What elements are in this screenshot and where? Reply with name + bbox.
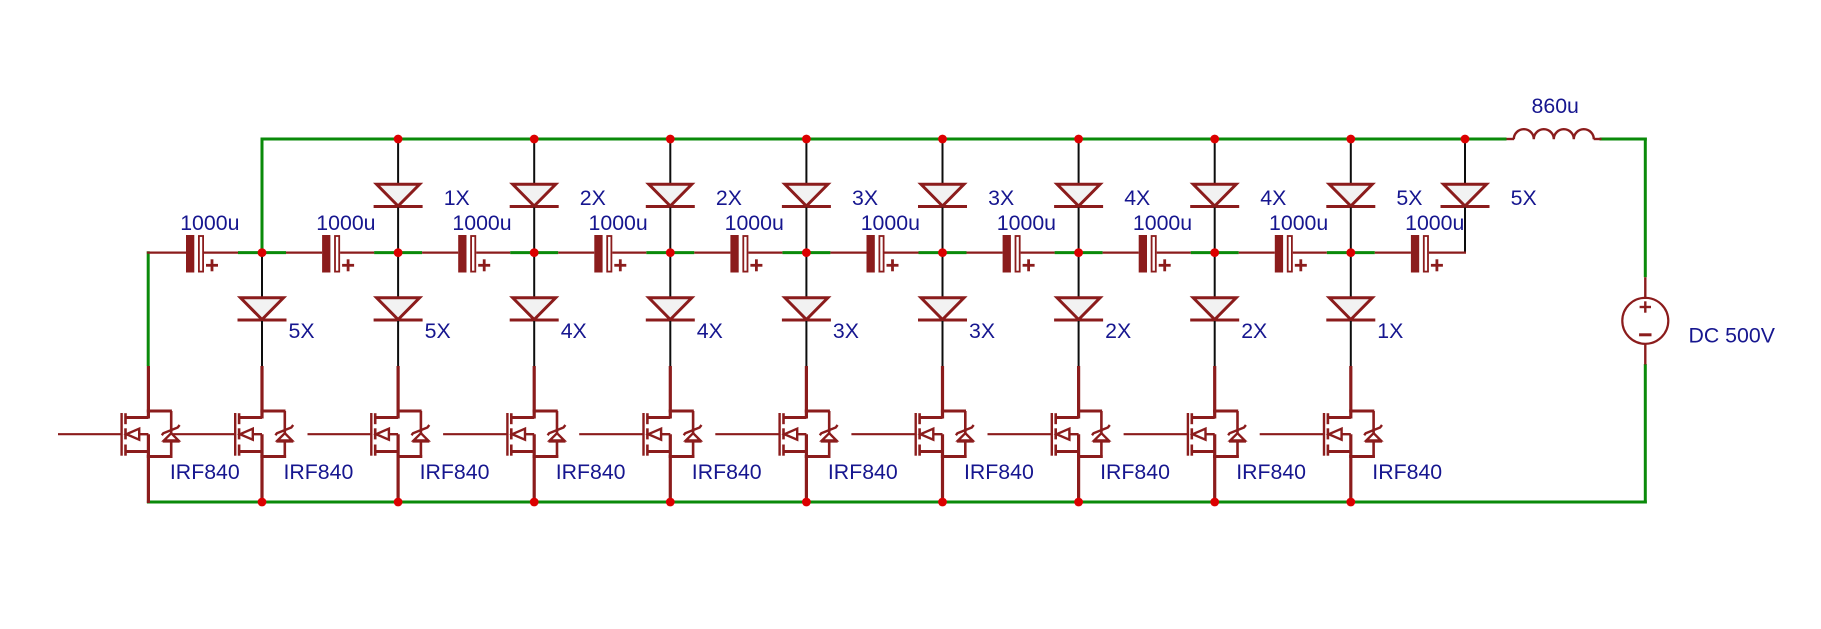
junction node on cap row (1210, 248, 1219, 257)
svg-text:1000u: 1000u (1405, 211, 1464, 235)
diode D3 (x2) top row (646, 184, 695, 206)
svg-text:3X: 3X (852, 186, 878, 210)
diode D11 (x5) bottom row (374, 298, 423, 320)
svg-text:DC 500V: DC 500V (1689, 324, 1776, 348)
wire: cap-row node stub at column 8 (1191, 251, 1239, 254)
wire: diode D17 cathode to MOSFET drain (1214, 321, 1216, 366)
wire: diode D16 cathode to MOSFET drain (1078, 321, 1080, 366)
capacitor C4 1000u (558, 235, 646, 273)
transistor Q7 IRF840 n-channel MOSFET (916, 366, 974, 503)
wire: Q7-Q8 gate link (988, 433, 1052, 435)
wire: top bus to diode D9 anode (1464, 139, 1466, 185)
inductor L1 860u (1507, 129, 1602, 139)
junction node on top bus (938, 135, 947, 144)
capacitor C10 1000u (1375, 235, 1466, 273)
svg-text:4X: 4X (697, 319, 723, 343)
wire: diode D11 cathode to MOSFET drain (397, 321, 399, 366)
wire: diode D2 cathode to cap row (533, 208, 535, 253)
wire: diode D1 cathode to cap row (397, 208, 399, 253)
svg-text:1X: 1X (1377, 319, 1403, 343)
diode D13 (x4) bottom row (646, 298, 695, 320)
wire: Q1-Q2 gate link (173, 433, 235, 435)
wire: cap row to diode D13 anode (669, 253, 671, 299)
wire: bottom ground bus (147, 501, 1647, 504)
svg-text:1000u: 1000u (861, 211, 920, 235)
wire: cap row to diode D11 anode (397, 253, 399, 299)
svg-text:IRF840: IRF840 (420, 460, 490, 484)
junction node on cap row (938, 248, 947, 257)
svg-text:IRF840: IRF840 (828, 460, 898, 484)
wire: cap-row node stub at column 4 (646, 251, 694, 254)
wire: Q1 gate input (58, 433, 121, 435)
svg-text:1000u: 1000u (316, 211, 375, 235)
wire: diode D13 cathode to MOSFET drain (669, 321, 671, 366)
svg-text:2X: 2X (1105, 319, 1131, 343)
wire: top bus left drop to cap row (261, 138, 264, 253)
svg-text:IRF840: IRF840 (170, 460, 240, 484)
svg-text:1000u: 1000u (725, 211, 784, 235)
wire: top bus to diode D6 anode (1078, 139, 1080, 185)
svg-text:1000u: 1000u (1133, 211, 1192, 235)
junction node on bottom bus (394, 498, 403, 507)
svg-text:4X: 4X (561, 319, 587, 343)
wire: diode D18 cathode to MOSFET drain (1350, 321, 1352, 366)
transistor Q10 IRF840 n-channel MOSFET (1324, 366, 1382, 503)
wire: cap row to diode D18 anode (1350, 253, 1352, 299)
svg-text:5X: 5X (1396, 186, 1422, 210)
wire: top supply bus (262, 138, 1507, 141)
wire: cap row to diode D10 anode (261, 253, 263, 299)
diode D14 (x3) bottom row (782, 298, 831, 320)
transistor Q9 IRF840 n-channel MOSFET (1188, 366, 1246, 503)
svg-text:IRF840: IRF840 (1236, 460, 1306, 484)
wire: top bus to diode D4 anode (805, 139, 807, 185)
diode D5 (x3) top row (918, 184, 967, 206)
wire: diode D9 cathode to cap row (1464, 208, 1466, 253)
junction node on cap row (802, 248, 811, 257)
wire: diode D10 cathode to MOSFET drain (261, 321, 263, 366)
diode D17 (x2) bottom row (1190, 298, 1239, 320)
svg-text:5X: 5X (1511, 186, 1537, 210)
junction node on top bus (1461, 135, 1470, 144)
junction node on top bus (1210, 135, 1219, 144)
wire: top bus to diode D3 anode (669, 139, 671, 185)
wire: right vertical from corner down to DC source + (1644, 138, 1647, 278)
wire: diode D6 cathode to cap row (1078, 208, 1080, 253)
wire: top bus to diode D5 anode (942, 139, 944, 185)
wire: Q3-Q4 gate link (443, 433, 507, 435)
transistor Q5 IRF840 n-channel MOSFET (644, 366, 702, 503)
svg-text:2X: 2X (1241, 319, 1267, 343)
wire: cap row to diode D16 anode (1078, 253, 1080, 299)
wire: diode D3 cathode to cap row (669, 208, 671, 253)
wire: cap-row node stub at column 6 (919, 251, 967, 254)
wire: diode D7 cathode to cap row (1214, 208, 1216, 253)
wire: cap-row node stub at column 1 (238, 251, 286, 254)
svg-text:1000u: 1000u (589, 211, 648, 235)
capacitor C9 1000u (1239, 235, 1327, 273)
wire: diode D15 cathode to MOSFET drain (942, 321, 944, 366)
svg-text:5X: 5X (289, 319, 315, 343)
svg-text:860u: 860u (1532, 94, 1579, 118)
svg-text:IRF840: IRF840 (1100, 460, 1170, 484)
wire: Q8-Q9 gate link (1124, 433, 1188, 435)
transistor Q6 IRF840 n-channel MOSFET (780, 366, 838, 503)
wire: top bus to diode D7 anode (1214, 139, 1216, 185)
svg-text:3X: 3X (988, 186, 1014, 210)
wire: cap-row node stub at column 7 (1055, 251, 1103, 254)
transistor Q2 IRF840 n-channel MOSFET (235, 366, 293, 503)
junction node on bottom bus (666, 498, 675, 507)
capacitor C5 1000u (694, 235, 782, 273)
wire: cap row to diode D15 anode (942, 253, 944, 299)
diode D10 (x5) bottom row (238, 298, 287, 320)
svg-text:1X: 1X (444, 186, 470, 210)
svg-text:3X: 3X (833, 319, 859, 343)
junction node on bottom bus (1346, 498, 1355, 507)
wire: left vertical cap1 to M1 drain (147, 251, 150, 366)
wire: cap-row node stub at column 5 (782, 251, 830, 254)
diode D9 (x5) top row (1441, 184, 1490, 206)
wire: cap-row node stub at column 2 (374, 251, 422, 254)
transistor Q3 IRF840 n-channel MOSFET (371, 366, 429, 503)
wire: Q4-Q5 gate link (579, 433, 643, 435)
wire: diode D12 cathode to MOSFET drain (533, 321, 535, 366)
svg-text:4X: 4X (1260, 186, 1286, 210)
svg-text:2X: 2X (716, 186, 742, 210)
junction node on bottom bus (938, 498, 947, 507)
junction node on bottom bus (258, 498, 267, 507)
diode D8 (x5) top row (1326, 184, 1375, 206)
svg-text:IRF840: IRF840 (692, 460, 762, 484)
svg-text:3X: 3X (969, 319, 995, 343)
junction node on cap row (258, 248, 267, 257)
junction node on cap row (394, 248, 403, 257)
diode D6 (x4) top row (1054, 184, 1103, 206)
wire: diode D8 cathode to cap row (1350, 208, 1352, 253)
junction node on top bus (1346, 135, 1355, 144)
junction node on cap row (666, 248, 675, 257)
wire: Q2-Q3 gate link (308, 433, 372, 435)
junction node on top bus (1074, 135, 1083, 144)
wire: cap-row node stub at column 9 (1327, 251, 1375, 254)
junction node on cap row (530, 248, 539, 257)
junction node on cap row (1074, 248, 1083, 257)
svg-text:1000u: 1000u (997, 211, 1056, 235)
wire: Q6-Q7 gate link (851, 433, 915, 435)
svg-text:1000u: 1000u (180, 211, 239, 235)
diode D16 (x2) bottom row (1054, 298, 1103, 320)
svg-text:2X: 2X (580, 186, 606, 210)
wire: diode D5 cathode to cap row (942, 208, 944, 253)
wire: cap row to diode D14 anode (805, 253, 807, 299)
junction node on bottom bus (1210, 498, 1219, 507)
svg-text:IRF840: IRF840 (1372, 460, 1442, 484)
junction node on top bus (666, 135, 675, 144)
wire: DC source - down to bottom bus (1644, 364, 1647, 504)
svg-text:1000u: 1000u (452, 211, 511, 235)
capacitor C8 1000u (1103, 235, 1191, 273)
svg-text:IRF840: IRF840 (556, 460, 626, 484)
transistor Q1 IRF840 n-channel MOSFET (122, 366, 180, 503)
svg-text:IRF840: IRF840 (284, 460, 354, 484)
diode D12 (x4) bottom row (510, 298, 559, 320)
svg-text:1000u: 1000u (1269, 211, 1328, 235)
capacitor C7 1000u (967, 235, 1055, 273)
svg-text:IRF840: IRF840 (964, 460, 1034, 484)
wire: cap-row node stub at column 3 (510, 251, 558, 254)
svg-text:4X: 4X (1124, 186, 1150, 210)
wire: diode D14 cathode to MOSFET drain (805, 321, 807, 366)
junction node on bottom bus (1074, 498, 1083, 507)
transistor Q8 IRF840 n-channel MOSFET (1052, 366, 1110, 503)
diode D2 (x2) top row (510, 184, 559, 206)
capacitor C1 1000u (147, 235, 238, 273)
svg-text:5X: 5X (425, 319, 451, 343)
wire: top bus to diode D2 anode (533, 139, 535, 185)
transistor Q4 IRF840 n-channel MOSFET (507, 366, 565, 503)
wire: diode D4 cathode to cap row (805, 208, 807, 253)
wire: cap row to diode D17 anode (1214, 253, 1216, 299)
capacitor C2 1000u (286, 235, 374, 273)
diode D15 (x3) bottom row (918, 298, 967, 320)
wire: Q5-Q6 gate link (715, 433, 779, 435)
voltage source V1 DC 500V (1622, 277, 1668, 364)
diode D1 (x1) top row (374, 184, 423, 206)
wire: top bus to diode D1 anode (397, 139, 399, 185)
junction node on top bus (802, 135, 811, 144)
capacitor C6 1000u (830, 235, 918, 273)
junction node on cap row (1346, 248, 1355, 257)
junction node on top bus (394, 135, 403, 144)
diode D4 (x3) top row (782, 184, 831, 206)
junction node on bottom bus (802, 498, 811, 507)
wire: inductor right to top-right corner (1600, 138, 1647, 141)
junction node on bottom bus (530, 498, 539, 507)
wire: Q9-Q10 gate link (1260, 433, 1324, 435)
capacitor C3 1000u (422, 235, 510, 273)
diode D18 (x1) bottom row (1326, 298, 1375, 320)
wire: cap row to diode D12 anode (533, 253, 535, 299)
diode D7 (x4) top row (1190, 184, 1239, 206)
junction node on top bus (530, 135, 539, 144)
wire: top bus to diode D8 anode (1350, 139, 1352, 185)
